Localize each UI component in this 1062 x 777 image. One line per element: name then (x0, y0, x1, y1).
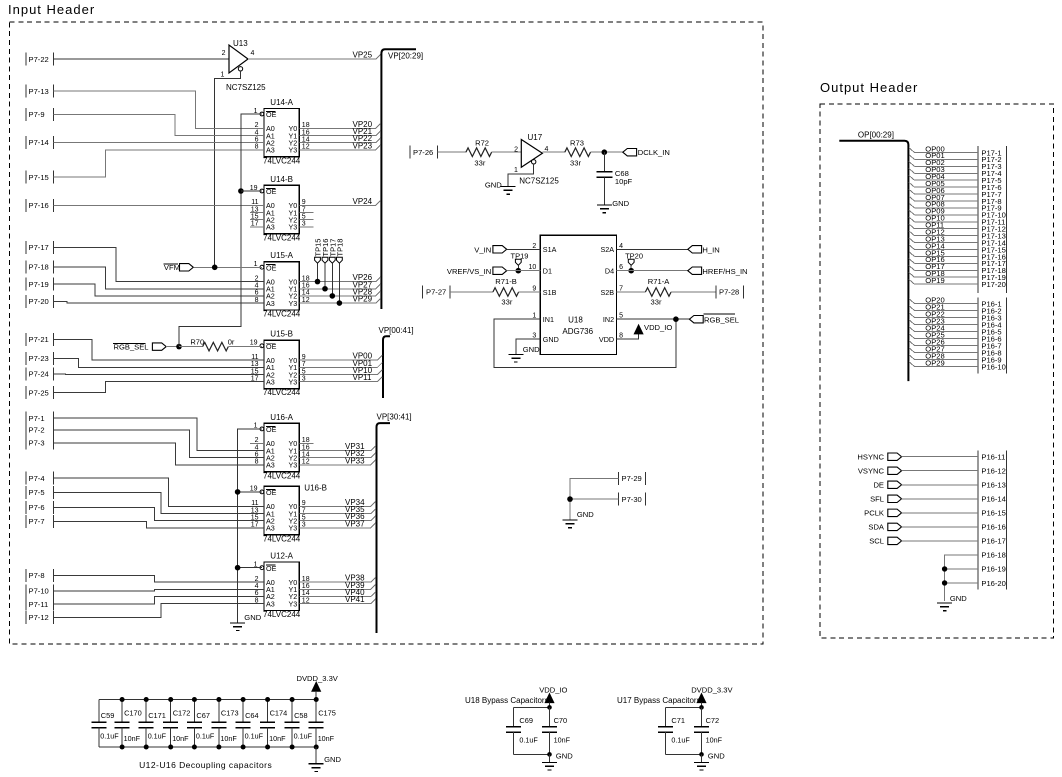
caption U18 Bypass Capacitors (465, 696, 549, 705)
svg-text:2: 2 (514, 147, 518, 154)
net label OP02 (925, 158, 944, 167)
svg-text:HREF/HS_IN: HREF/HS_IN (702, 267, 747, 276)
wire R73 to DCLK_IN (591, 151, 623, 153)
net label VP25 (353, 51, 373, 60)
svg-text:P7-24: P7-24 (29, 370, 49, 379)
svg-text:VP29: VP29 (353, 295, 373, 304)
wire OP19 to P17-20 (909, 279, 978, 284)
svg-text:33r: 33r (651, 297, 662, 306)
junction C64 top (241, 697, 246, 702)
wire VP31 (299, 446, 375, 451)
net flag HSYNC (857, 453, 901, 462)
connector pin P7-20 (26, 295, 54, 308)
net label VP11 (353, 373, 373, 382)
junction C174 bottom (265, 745, 270, 750)
junction TP16 (322, 286, 328, 292)
svg-text:C71: C71 (671, 716, 685, 725)
svg-text:P7-11: P7-11 (29, 600, 49, 609)
junction bypass top (547, 705, 552, 710)
ground below U12-A OE chain (230, 613, 262, 631)
pin label P17-9 (981, 204, 1001, 213)
svg-text:Y3: Y3 (289, 223, 298, 232)
wire OP16 to P17-17 (909, 259, 978, 264)
pin label P17-3 (981, 162, 1001, 171)
net label VP29 (353, 295, 373, 304)
pin label P16-17 (981, 537, 1006, 546)
junction C172 bottom (168, 745, 173, 750)
junction C174 top (265, 697, 270, 702)
svg-text:SCL: SCL (869, 537, 884, 546)
pin label P17-7 (981, 190, 1001, 199)
wire decoupling bottom rail (99, 746, 316, 748)
pin label P17-15 (981, 245, 1006, 254)
net label OP10 (925, 214, 944, 223)
wire P7-15 to U14-A A3 (54, 150, 265, 177)
net label OP07 (925, 193, 944, 202)
connector pin P7-2 (26, 423, 54, 436)
svg-text:C70: C70 (554, 716, 568, 725)
connector pin P7-8 (26, 569, 54, 582)
svg-text:GND: GND (708, 752, 725, 761)
svg-text:P7-26: P7-26 (413, 148, 433, 157)
pin label P16-10 (981, 362, 1006, 371)
wire P7-14 to U14-A A2 (54, 141, 265, 143)
net flag VREF/VS_IN (447, 267, 540, 276)
wire VP36 (299, 516, 375, 521)
svg-text:Y3: Y3 (289, 524, 298, 533)
wire P16-18/19/20 ground net (945, 555, 979, 601)
test point TP19 (511, 251, 529, 270)
wire VP39 (299, 584, 375, 589)
stub U14-B Y1 Y2 Y3 (299, 213, 313, 227)
connector pin P7-14 (26, 136, 54, 149)
wire P7-25 to U15-B A3 (54, 382, 265, 393)
wire VP27 (299, 284, 380, 289)
svg-text:2: 2 (532, 243, 536, 250)
svg-text:OP[00:29]: OP[00:29] (858, 130, 894, 139)
svg-text:0.1uF: 0.1uF (245, 732, 264, 741)
octal buffer U16-B (250, 484, 327, 544)
net label OP26 (925, 337, 944, 346)
connector pin P7-22 (26, 53, 54, 66)
svg-text:GND: GND (543, 335, 559, 344)
pin label P16-13 (981, 481, 1006, 490)
ground decoupling rail (309, 747, 342, 771)
pin label P17-12 (981, 225, 1006, 234)
wire OP11 to P17-12 (909, 224, 978, 229)
wire OP24 to P16-5 (909, 327, 978, 332)
svg-text:GND: GND (556, 752, 573, 761)
capacitor C67 (187, 700, 215, 748)
Output Header dashed border (820, 104, 1054, 638)
connector pin P7-9 (26, 108, 54, 121)
connector pin P7-18 (26, 260, 54, 273)
capacitor C173 (211, 700, 238, 748)
svg-text:C64: C64 (245, 711, 259, 720)
wire SDA to P16-16 (902, 526, 979, 528)
wire P7-21 to U15-B A0 (54, 339, 265, 360)
svg-text:6: 6 (619, 264, 623, 271)
connector pin P7-19 (26, 278, 54, 291)
pin label P17-19 (981, 273, 1006, 282)
svg-text:NC7SZ125: NC7SZ125 (519, 177, 559, 186)
connector pin P7-6 (26, 501, 54, 514)
net flag DE (873, 481, 901, 490)
svg-text:P16-14: P16-14 (981, 495, 1006, 504)
octal buffer U16-A (254, 413, 310, 481)
wire U17 out to R73 (542, 151, 564, 153)
ground at U18 (508, 345, 540, 362)
pin label P16-2 (981, 306, 1001, 315)
junction P16-19 (942, 566, 947, 571)
svg-text:P7-4: P7-4 (29, 474, 45, 483)
wire DE to P16-13 (902, 484, 979, 486)
pin label P16-7 (981, 341, 1001, 350)
connector pin P7-11 (26, 598, 54, 611)
wire U17 pin1 to GND (508, 164, 534, 186)
net label VP33 (345, 456, 365, 465)
svg-text:V_IN: V_IN (474, 245, 491, 254)
wire OP12 to P17-13 (909, 231, 978, 236)
wire bypass bottom rail C71/C72 (666, 753, 702, 755)
pin label P16-18 (981, 551, 1006, 560)
svg-text:VDD_IO: VDD_IO (644, 323, 672, 332)
svg-text:P7-20: P7-20 (29, 297, 49, 306)
svg-text:A3: A3 (266, 524, 275, 533)
wire VP20 (299, 124, 380, 129)
net label OP00 (925, 144, 944, 153)
wire to U14-B OE (241, 190, 262, 192)
wire P7-18 to U15-A A1 (54, 267, 265, 289)
test point TP16 (321, 239, 330, 289)
wire P7-1 to U16-A A1 (54, 418, 265, 450)
svg-text:R70: R70 (190, 337, 204, 346)
net label OP27 (925, 344, 944, 353)
svg-text:Input Header: Input Header (8, 2, 95, 17)
svg-text:C171: C171 (148, 711, 166, 720)
power VDD_IO bypass (539, 686, 567, 708)
net flag PCLK (864, 509, 901, 518)
net label OP21 (925, 302, 944, 311)
pin label P17-11 (981, 218, 1005, 227)
wire SCL to P16-17 (902, 540, 979, 542)
wire OP07 to P17-8 (909, 196, 978, 201)
junction C58 bottom (290, 745, 295, 750)
net label VP01 (353, 359, 373, 368)
net label VP41 (345, 595, 365, 604)
svg-text:P16-16: P16-16 (981, 523, 1006, 532)
svg-text:P16-17: P16-17 (981, 537, 1006, 546)
svg-text:A3: A3 (266, 223, 275, 232)
buffer U13 (222, 39, 267, 92)
svg-text:1: 1 (514, 167, 518, 174)
net flag SFL (870, 495, 902, 504)
wire P7-4 to U16-B A0 (54, 478, 265, 506)
junction P16-20 (942, 580, 947, 585)
wire OP29 to P16-10 (909, 362, 978, 367)
svg-text:GND: GND (244, 613, 261, 622)
svg-text:R72: R72 (475, 139, 489, 148)
wire OP22 to P16-3 (909, 313, 978, 318)
net label VP40 (345, 588, 365, 597)
wire P7-29 P7-30 to GND (570, 478, 618, 519)
wire VP24 (299, 201, 380, 206)
svg-text:10nF: 10nF (220, 734, 237, 743)
wire VP01 (299, 363, 382, 368)
pin label P16-8 (981, 348, 1001, 357)
svg-text:P7-2: P7-2 (29, 426, 45, 435)
svg-text:10pF: 10pF (615, 177, 633, 186)
svg-text:U17: U17 (528, 133, 543, 142)
wire P7-8 to U12-A A0 (54, 575, 265, 582)
svg-text:10nF: 10nF (172, 734, 189, 743)
svg-text:9: 9 (532, 286, 536, 293)
capacitor C72 (694, 707, 723, 754)
svg-text:10nF: 10nF (318, 734, 335, 743)
svg-text:U16-A: U16-A (270, 413, 293, 422)
svg-text:U14-A: U14-A (270, 98, 293, 107)
wire VP37 (299, 523, 375, 528)
net flag VFM (164, 263, 262, 272)
connector pin P7-25 (26, 386, 54, 399)
wire VP22 (299, 138, 380, 143)
svg-text:VREF/VS_IN: VREF/VS_IN (447, 267, 491, 276)
capacitor C70 (542, 707, 571, 754)
svg-text:S1B: S1B (543, 288, 557, 297)
junction C171 top (144, 697, 149, 702)
svg-text:R71-B: R71-B (495, 277, 517, 286)
pin label P16-6 (981, 334, 1001, 343)
net label VP31 (345, 442, 365, 451)
wire P7-24 to U15-B A2 (54, 373, 265, 376)
svg-text:VFM: VFM (164, 263, 180, 272)
junction P7-30 node (567, 496, 573, 502)
svg-text:P16-19: P16-19 (981, 565, 1006, 574)
svg-text:7: 7 (619, 286, 623, 293)
wire P7-11 to U12-A A2 (54, 596, 265, 604)
junction C64 bottom (241, 745, 246, 750)
junction DCLK node (602, 149, 608, 155)
net label VP24 (353, 197, 373, 206)
svg-text:DE: DE (873, 481, 884, 490)
svg-text:P7-14: P7-14 (29, 138, 49, 147)
pin label P16-15 (981, 509, 1006, 518)
connector pin P7-15 (26, 171, 54, 184)
capacitor C174 (260, 700, 287, 748)
svg-text:10nF: 10nF (554, 736, 571, 745)
svg-text:3: 3 (532, 333, 536, 340)
svg-text:C172: C172 (173, 709, 191, 718)
connector pin P7-30 (618, 493, 645, 506)
svg-text:U14-B: U14-B (270, 175, 293, 184)
junction C67 top (192, 697, 197, 702)
pin label P16-4 (981, 320, 1001, 329)
net flag SDA (868, 523, 901, 532)
junction TP20 (628, 268, 634, 274)
net label OP14 (925, 241, 944, 250)
svg-text:33r: 33r (501, 297, 512, 306)
svg-text:U13: U13 (233, 39, 248, 48)
net label OP05 (925, 179, 944, 188)
svg-text:P16-12: P16-12 (981, 467, 1006, 476)
svg-text:VP[30:41]: VP[30:41] (377, 413, 412, 422)
stub U16-A A0 (250, 442, 264, 444)
stub U16-A Y0 (299, 442, 313, 444)
svg-text:C175: C175 (318, 709, 336, 718)
svg-text:P7-8: P7-8 (29, 571, 45, 580)
ground at P16 (937, 594, 967, 611)
resistor R71-B (450, 277, 540, 306)
resistor R71-A (617, 277, 716, 306)
buffer U17 (514, 133, 559, 186)
pin label P16-16 (981, 523, 1006, 532)
svg-text:GND: GND (485, 180, 502, 189)
svg-text:74LVC244: 74LVC244 (263, 310, 301, 319)
net label VP21 (353, 127, 373, 136)
svg-text:VP[00:41]: VP[00:41] (379, 326, 414, 335)
svg-text:VP25: VP25 (353, 51, 373, 60)
junction C170 top (120, 697, 125, 702)
svg-text:U15-A: U15-A (270, 251, 293, 260)
junction RGB_SEL node (176, 344, 182, 350)
junction C175 top (314, 697, 319, 702)
svg-text:D1: D1 (543, 267, 552, 276)
svg-text:P7-16: P7-16 (29, 201, 49, 210)
net label OP06 (925, 186, 944, 195)
net label VP28 (353, 287, 373, 296)
connector pin P7-3 (26, 436, 54, 449)
pin label P17-10 (981, 211, 1006, 220)
connector pin P7-12 (26, 611, 54, 624)
wire U16 OE chain to GND (238, 429, 262, 623)
svg-text:VP33: VP33 (345, 456, 365, 465)
net label OP19 (925, 276, 944, 285)
wire OP09 to P17-10 (909, 210, 978, 215)
svg-text:8: 8 (619, 333, 623, 340)
svg-text:0.1uF: 0.1uF (196, 732, 215, 741)
net flag SCL (869, 537, 901, 546)
pin label P16-3 (981, 313, 1001, 322)
power DVDD_3.3V bypass (691, 686, 733, 708)
svg-text:Output Header: Output Header (820, 80, 918, 95)
wire VP35 (299, 509, 375, 514)
pin label P16-1 (981, 299, 1001, 308)
wire OP14 to P17-15 (909, 245, 978, 250)
wire VP10 (299, 370, 382, 375)
svg-text:DCLK_IN: DCLK_IN (638, 148, 670, 157)
junction IN loop RGB_SEL (673, 316, 679, 322)
svg-text:U12-U16 Decoupling capacitors: U12-U16 Decoupling capacitors (139, 760, 272, 770)
connector pin P7-4 (26, 472, 54, 485)
net flag RGB_SEL right (689, 314, 739, 325)
wire HSYNC to P16-11 (902, 456, 979, 458)
svg-text:P7-7: P7-7 (29, 517, 45, 526)
capacitor C170 (115, 700, 142, 748)
net label OP23 (925, 316, 944, 325)
wire U18 GND pin (516, 339, 540, 354)
junction C171 bottom (144, 745, 149, 750)
svg-text:P16-10: P16-10 (981, 362, 1006, 371)
junction bypass bottom (699, 752, 704, 757)
svg-text:P7-9: P7-9 (29, 110, 45, 119)
wire P7-17 to U15-A A0 (54, 247, 265, 281)
svg-text:S1A: S1A (543, 245, 557, 254)
wire OP06 to P17-7 (909, 189, 978, 194)
svg-text:VP23: VP23 (353, 141, 373, 150)
wire IN2 to RGB_SEL (617, 318, 690, 320)
svg-text:0.1uF: 0.1uF (148, 732, 167, 741)
wire OP00 to P17-1 (909, 148, 978, 153)
wire P7-23 to U15-B A1 (54, 358, 265, 367)
svg-text:5: 5 (619, 313, 623, 320)
net label OP28 (925, 351, 944, 360)
analog switch U18 ADG736 (529, 235, 624, 354)
net label OP04 (925, 172, 944, 181)
net flag DCLK_IN (623, 148, 670, 157)
net label VP22 (353, 134, 373, 143)
ground at U17 (485, 180, 516, 194)
net label OP16 (925, 255, 944, 264)
Output Header title (820, 80, 918, 95)
wire OP04 to P17-5 (909, 175, 978, 180)
wire P7-5 to U16-B A1 (54, 492, 265, 513)
pin label P17-17 (981, 259, 1006, 268)
svg-text:74LVC244: 74LVC244 (263, 610, 301, 619)
svg-text:P7-21: P7-21 (29, 335, 49, 344)
connector pin P7-27 (423, 286, 451, 299)
svg-text:VP37: VP37 (345, 519, 365, 528)
ground bypass C71/C72 (694, 752, 725, 771)
wire VP11 (299, 377, 382, 382)
wire OP01 to P17-2 (909, 155, 978, 160)
pin label P17-8 (981, 197, 1001, 206)
net label VP10 (353, 366, 373, 375)
capacitor C175 (309, 700, 336, 748)
svg-text:A3: A3 (266, 377, 275, 386)
capacitor C69 (506, 707, 538, 754)
connector pin P7-23 (26, 352, 54, 365)
bus OP[00:29] (839, 130, 908, 381)
wire OP23 to P16-4 (909, 320, 978, 325)
wire RGB_SEL to U14 OE (179, 114, 262, 347)
wire OP27 to P16-8 (909, 348, 978, 353)
svg-text:0.1uF: 0.1uF (100, 732, 119, 741)
svg-text:19: 19 (250, 340, 258, 347)
net label VP00 (353, 352, 373, 361)
svg-text:DVDD_3.3V: DVDD_3.3V (297, 674, 339, 683)
junction U12-A OE (235, 565, 241, 571)
net label VP38 (345, 574, 365, 583)
wire decoupling top rail (99, 699, 316, 701)
junction TP18 (337, 300, 343, 306)
test point TP18 (335, 239, 344, 303)
wire OP03 to P17-4 (909, 168, 978, 173)
svg-text:P7-18: P7-18 (29, 263, 49, 272)
svg-text:HSYNC: HSYNC (857, 453, 884, 462)
svg-text:VDD_IO: VDD_IO (539, 686, 567, 695)
pin label P16-11 (981, 453, 1005, 462)
connector pin P7-21 (26, 333, 54, 346)
net label OP22 (925, 309, 944, 318)
svg-text:U12-A: U12-A (270, 552, 293, 561)
junction C172 top (168, 697, 173, 702)
svg-text:C69: C69 (519, 716, 533, 725)
junction C58 top (290, 697, 295, 702)
wire P7-9 to U14-A A1 (54, 114, 265, 135)
connector pin P7-24 (26, 367, 54, 380)
junction C170 bottom (120, 745, 125, 750)
connector pin P7-7 (26, 515, 54, 528)
